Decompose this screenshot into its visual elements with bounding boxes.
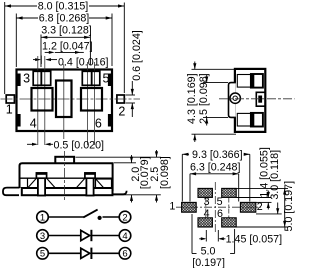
svg-text:3.0 [0.118]: 3.0 [0.118] <box>269 150 281 200</box>
switch blade <box>83 210 97 218</box>
svg-text:1: 1 <box>169 200 175 212</box>
svg-text:4: 4 <box>30 117 37 131</box>
centerline vertical pin3 a <box>37 56 39 145</box>
dimension 2.5 side <box>76 150 161 203</box>
side base plate <box>22 188 113 195</box>
side left foot <box>3 188 20 196</box>
diode 5-6 triangle <box>81 248 90 258</box>
svg-text:8.0 [0.315]: 8.0 [0.315] <box>38 1 89 13</box>
svg-text:5: 5 <box>103 72 110 86</box>
diode 3-4 cathode bar <box>90 230 92 241</box>
dimension 5.0 [0.197] bottom <box>192 214 235 254</box>
svg-text:[0.098]: [0.098] <box>159 156 171 189</box>
switch contact dot <box>98 216 102 220</box>
side lead 6 <box>86 175 93 196</box>
dimension 6.3 [0.248] <box>190 174 239 202</box>
top view pocket upper <box>237 75 256 88</box>
land pattern centerline vertical <box>214 182 216 233</box>
pad 1 <box>182 202 197 212</box>
pin 6 terminal <box>81 88 102 111</box>
top view actuator <box>229 83 236 118</box>
pin 3 contact squares <box>33 71 41 85</box>
top view pocket lower <box>237 113 256 126</box>
pin circle 1 <box>37 211 49 223</box>
top view side pocket pin2 <box>256 92 265 106</box>
dimension 4.3 [0.169] top view <box>192 62 237 143</box>
svg-text:6.8 [0.268]: 6.8 [0.268] <box>39 13 90 25</box>
svg-text:0.6 [0.024]: 0.6 [0.024] <box>131 30 143 81</box>
pin circle 3 <box>37 230 49 242</box>
side body seam <box>20 177 113 179</box>
svg-text:5.0 [0.197]: 5.0 [0.197] <box>283 181 295 232</box>
dimension 8.0 [0.315] <box>5 2 125 94</box>
svg-text:6: 6 <box>95 117 102 131</box>
diode 3-4 triangle <box>81 230 90 240</box>
diode 5-6 wire <box>48 252 80 254</box>
front view body <box>17 70 113 132</box>
svg-text:4: 4 <box>204 208 210 220</box>
svg-text:1.45 [0.057]: 1.45 [0.057] <box>226 234 282 246</box>
dimension 1.4 [0.055] <box>237 191 272 210</box>
centerline vertical pin5 b <box>94 62 96 145</box>
pin circle 4 <box>119 230 131 242</box>
side inner wall left <box>27 178 29 188</box>
diode 3-4 wire <box>48 235 80 237</box>
svg-text:9.3 [0.366]: 9.3 [0.366] <box>192 149 243 161</box>
top view centerline <box>219 98 295 100</box>
svg-text:1: 1 <box>6 103 13 117</box>
svg-text:6: 6 <box>122 249 127 260</box>
side view centerline <box>64 151 66 200</box>
svg-text:1: 1 <box>40 212 45 223</box>
pin circle 6 <box>119 248 131 260</box>
top view body <box>235 69 265 132</box>
dimension 1.45 [0.057] <box>199 230 225 242</box>
side lead 4 <box>38 175 45 196</box>
svg-text:[0.197]: [0.197] <box>192 257 225 268</box>
land column centerline right <box>228 198 230 218</box>
dimension 3.0 [0.118] <box>256 203 282 214</box>
top view contact upper <box>251 74 263 88</box>
svg-text:5: 5 <box>217 196 223 208</box>
top view contact lower <box>251 113 263 127</box>
pin circle 5 <box>37 248 49 260</box>
svg-text:2: 2 <box>118 105 125 119</box>
dimension 9.3 [0.366] <box>182 154 250 201</box>
pin 5 contact squares <box>82 71 91 85</box>
svg-text:3.3 [0.128]: 3.3 [0.128] <box>41 25 92 37</box>
pin circle 2 <box>119 211 131 223</box>
svg-text:3: 3 <box>40 231 45 242</box>
dimension 2.5 [0.098] top view <box>203 75 228 126</box>
svg-text:6: 6 <box>217 208 223 220</box>
dimension 0.4 [0.016] <box>33 56 57 65</box>
pad 5 <box>222 188 237 197</box>
centerline vertical pin5 a <box>87 62 89 145</box>
dimension 2.0 [0.079] side <box>114 155 161 203</box>
centerline vertical pin3 b <box>44 56 46 145</box>
pin 1 side tab <box>6 95 14 103</box>
side inner wall right <box>96 179 112 188</box>
svg-text:0.4 [0.016]: 0.4 [0.016] <box>58 56 109 68</box>
diode 5-6 cathode bar <box>90 248 92 259</box>
svg-text:3: 3 <box>23 72 30 86</box>
switch wire right <box>103 216 120 218</box>
svg-text:5.0: 5.0 <box>201 245 216 257</box>
pad 4 <box>198 218 212 227</box>
svg-text:4: 4 <box>122 231 127 242</box>
dimension 5.0 [0.197] vertical <box>237 188 289 227</box>
side body outline <box>20 163 113 191</box>
dimension 0.5 [0.020] <box>27 143 53 145</box>
pin 2 side tab <box>117 95 124 103</box>
side right foot <box>113 191 127 195</box>
pad 2 <box>240 202 255 212</box>
centerline horizontal front view <box>1 98 141 100</box>
dimension 6.8 [0.268] <box>16 14 112 68</box>
svg-text:2: 2 <box>122 212 127 223</box>
land pattern centerline horizontal <box>176 206 261 208</box>
svg-text:4.3 [0.169]: 4.3 [0.169] <box>186 73 198 124</box>
svg-text:6.3 [0.248]: 6.3 [0.248] <box>190 161 241 173</box>
centerline vertical center pin <box>63 64 65 139</box>
svg-text:0.5 [0.020]: 0.5 [0.020] <box>54 140 105 152</box>
front body molding marks <box>17 74 21 87</box>
svg-text:2: 2 <box>257 201 263 213</box>
pad 3 <box>198 188 212 197</box>
pin 4 terminal <box>32 88 53 111</box>
side actuator bump <box>55 157 74 164</box>
svg-text:2.5 [0.098]: 2.5 [0.098] <box>198 73 210 124</box>
land column centerline left <box>205 198 207 218</box>
pad 6 <box>222 218 237 227</box>
svg-text:3: 3 <box>204 196 210 208</box>
top view pivot circle <box>230 93 240 103</box>
dimension 0.6 [0.024] right side <box>126 81 136 117</box>
center pin <box>56 81 72 118</box>
svg-text:1.2 [0.047]: 1.2 [0.047] <box>42 40 93 52</box>
svg-text:5: 5 <box>40 249 45 260</box>
switch wire left <box>48 216 84 218</box>
